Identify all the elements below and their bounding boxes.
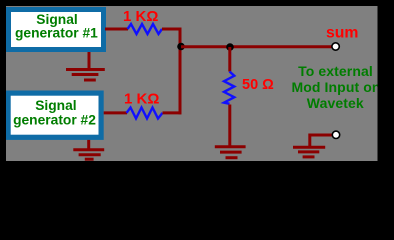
wire (sum output) <box>181 45 332 48</box>
svg-text:Wavetek: Wavetek <box>307 95 364 111</box>
svg-text:Mod Input on: Mod Input on <box>291 79 380 95</box>
wire (junction to R3) <box>228 47 231 72</box>
svg-text:To external: To external <box>298 63 373 79</box>
resistor R1 <box>128 24 163 34</box>
wire (SG1 output to R1) <box>105 28 128 31</box>
annotation: To external Mod Input on Wavetek <box>291 63 380 111</box>
resistor R3 <box>224 72 234 104</box>
svg-text:generator #2: generator #2 <box>13 113 96 128</box>
signal generator #2 block <box>6 91 104 140</box>
svg-text:50 Ω: 50 Ω <box>242 77 274 93</box>
black frame overlay <box>0 0 394 6</box>
junction (summing node tap) <box>177 43 185 51</box>
wire (ground terminal stub) <box>310 135 332 146</box>
junction (50Ω tap) <box>226 43 234 51</box>
svg-text:1 KΩ: 1 KΩ <box>123 8 158 25</box>
wire (R1 to summing bus) <box>162 28 181 31</box>
svg-text:Signal: Signal <box>35 98 76 113</box>
svg-text:1 KΩ: 1 KΩ <box>124 91 159 108</box>
wire (SG2 output to R2) <box>104 111 127 114</box>
terminal ground (open circle) <box>332 131 339 138</box>
svg-text:generator #1: generator #1 <box>15 26 98 41</box>
ground (bottom right) <box>293 147 325 157</box>
signal generator #1 block <box>6 7 106 52</box>
wire (summing bus, vertical) <box>179 28 182 115</box>
wire (R2 to summing bus) <box>163 111 182 114</box>
schematic canvas background <box>0 0 394 164</box>
terminal sum (open circle) <box>332 43 339 50</box>
ground (below signal generator #2) <box>73 140 104 159</box>
ground (below R3) <box>215 147 246 158</box>
svg-text:sum: sum <box>326 24 358 41</box>
wire (R3 to ground) <box>228 105 231 147</box>
resistor R2 <box>127 108 163 119</box>
ground (below signal generator #1) <box>66 52 105 80</box>
